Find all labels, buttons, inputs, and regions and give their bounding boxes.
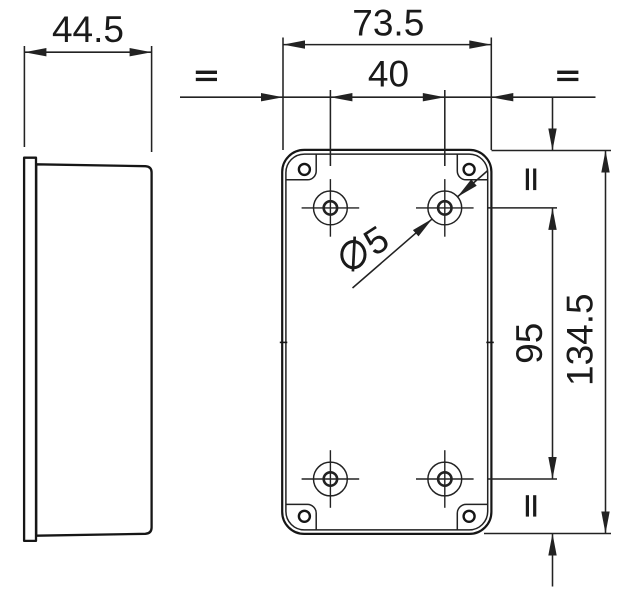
screw hole bottom-left — [299, 511, 310, 522]
mounting hole top-left — [302, 179, 360, 237]
screw hole bottom-right — [464, 511, 475, 522]
extension bottom edge right — [484, 533, 611, 535]
chain line lower segment — [552, 534, 554, 587]
front view outer outline — [282, 150, 491, 534]
dim 134.5 arrow down — [601, 512, 609, 534]
front view inner outline — [286, 154, 488, 530]
svg-text:44.5: 44.5 — [52, 9, 124, 50]
equals symbol left — [196, 71, 217, 82]
svg-text:95: 95 — [509, 323, 550, 364]
corner pad bottom-right — [457, 504, 487, 529]
dim 44.5 arrow right — [130, 48, 152, 56]
arrow up at bottom edge — [548, 534, 556, 556]
dim 95 line — [552, 208, 554, 479]
equals symbol right — [557, 71, 578, 82]
extension top edge right — [492, 150, 612, 152]
diameter leader upper line — [457, 171, 488, 198]
dim 44.5 extension line right — [151, 46, 153, 152]
dim 73.5 line — [283, 44, 491, 46]
diameter leader lower arrow — [413, 219, 432, 237]
svg-text:73.5: 73.5 — [352, 2, 424, 43]
arrow at left hole pointing left — [330, 93, 352, 101]
dim 73.5 extension line right — [490, 38, 492, 151]
dim 73.5 arrow left — [283, 40, 305, 48]
dim 134.5 line — [605, 151, 607, 534]
corner pad top-right — [457, 154, 487, 180]
extension bottom hole row right — [487, 478, 557, 480]
corner pad bottom-left — [286, 504, 316, 529]
chain line upper segment — [552, 97, 554, 150]
side view flange plate — [24, 158, 36, 541]
corner pad top-left — [286, 154, 316, 180]
mounting hole top-right — [416, 179, 474, 237]
dim 44.5 extension line left — [23, 46, 25, 147]
diameter leader upper arrow — [457, 179, 476, 197]
parting tick right edge — [486, 341, 494, 343]
dim 95 arrow down — [548, 457, 556, 479]
mounting hole bottom-left — [302, 450, 360, 508]
dim 73.5 extension line left — [282, 38, 284, 151]
diameter leader lower line — [353, 219, 433, 288]
hole centre extension right — [444, 90, 446, 166]
parting tick left edge — [280, 341, 288, 343]
extension top hole row right — [487, 207, 557, 209]
dim 44.5 arrow left — [24, 48, 46, 56]
screw hole top-right — [464, 164, 475, 175]
side view body — [36, 164, 151, 535]
dim 73.5 arrow right — [469, 40, 491, 48]
equal symbol II top — [526, 169, 537, 191]
arrow at left edge pointing right — [261, 93, 283, 101]
diameter label symbol circle — [342, 242, 365, 268]
equal-spacing line y97 — [180, 96, 596, 98]
screw hole top-left — [299, 164, 310, 175]
dim 44.5 line — [24, 51, 151, 53]
svg-text:40: 40 — [368, 54, 409, 95]
dim 95 arrow up — [548, 208, 556, 230]
arrow at right hole pointing right — [423, 93, 445, 101]
svg-text:134.5: 134.5 — [560, 293, 601, 386]
arrow at right edge pointing left — [491, 93, 513, 101]
dim 134.5 arrow up — [601, 151, 609, 173]
diameter label symbol slash — [353, 237, 355, 272]
mounting hole bottom-right — [416, 450, 474, 508]
equal symbol II bottom — [526, 495, 537, 516]
hole centre extension left — [329, 90, 331, 166]
arrow down at top edge — [548, 129, 556, 151]
